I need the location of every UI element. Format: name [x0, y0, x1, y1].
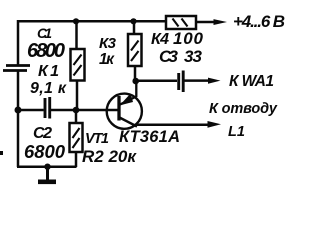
svg-text:9,1 к: 9,1 к: [30, 80, 67, 97]
wire R3 top lead: [133, 21, 136, 34]
transistor VT1: [107, 81, 142, 129]
svg-text:6800: 6800: [27, 40, 65, 62]
wire C3 right lead to WA1: [185, 79, 212, 82]
svg-text:R2 20к: R2 20к: [82, 147, 137, 166]
wire R1 top lead: [75, 21, 78, 49]
svg-text:К4: К4: [151, 31, 169, 48]
capacitor C3: [179, 71, 184, 93]
resistor R3: [128, 34, 142, 66]
capacitor C2: [45, 97, 50, 119]
wire C3 left lead: [135, 79, 177, 82]
ink speck left edge: [0, 151, 3, 155]
node top rail R3 junction: [130, 18, 136, 24]
svg-text:100: 100: [173, 29, 204, 48]
svg-text:С1: С1: [37, 25, 52, 41]
svg-text:6800: 6800: [24, 141, 66, 162]
node left/C2 junction: [15, 107, 22, 114]
node ground junction: [44, 164, 50, 170]
node R3/C3/emitter junction: [132, 78, 139, 85]
svg-text:L1: L1: [228, 124, 245, 140]
wire left branch upper: [17, 20, 20, 65]
wire R4 right lead: [196, 21, 216, 24]
arrow to WA1: [208, 78, 221, 84]
svg-text:К WA1: К WA1: [229, 73, 274, 90]
arrow to +4...6V: [214, 19, 228, 25]
svg-text:К3: К3: [99, 35, 117, 52]
wire R2 top lead: [75, 110, 78, 123]
resistor R4: [166, 16, 196, 29]
wire C2 left lead: [18, 109, 44, 112]
wire R3 bottom lead: [134, 66, 137, 81]
svg-text:С2: С2: [33, 125, 52, 142]
svg-text:1к: 1к: [99, 51, 115, 68]
svg-text:+4...6 В: +4...6 В: [233, 12, 285, 31]
ground: [38, 167, 56, 184]
node top rail R1 junction: [73, 18, 79, 24]
svg-text:КТ361А: КТ361А: [119, 128, 180, 146]
capacitor C1: [3, 66, 30, 71]
resistor R2: [70, 123, 83, 152]
node R1/R2/base junction: [73, 107, 80, 114]
wire R2 bottom lead: [75, 152, 78, 167]
svg-text:С3: С3: [159, 47, 179, 66]
resistor R1: [71, 49, 85, 81]
wire collector lead to L1: [136, 123, 211, 126]
wire R1 bottom lead: [76, 81, 79, 111]
wire top rail: [18, 20, 166, 23]
wire bottom rail: [17, 165, 77, 168]
svg-text:К отводу: К отводу: [209, 101, 278, 117]
arrow to L1 tap: [208, 121, 222, 128]
svg-text:VT1: VT1: [85, 131, 109, 147]
wire left branch lower: [17, 71, 20, 167]
wire base lead: [51, 109, 118, 112]
svg-text:33: 33: [184, 47, 203, 66]
